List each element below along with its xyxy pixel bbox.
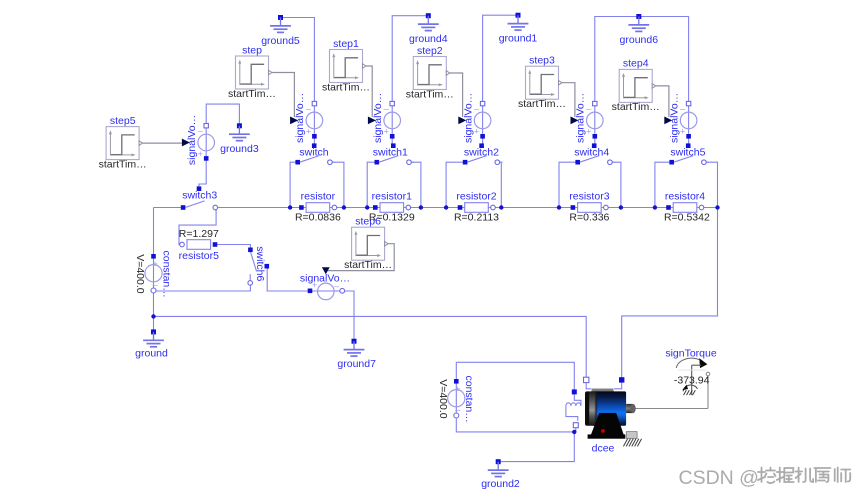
svg-text:signalVo…: signalVo…	[462, 93, 474, 143]
svg-text:resistor1: resistor1	[372, 191, 412, 203]
svg-text:+: +	[680, 127, 685, 137]
svg-text:signalVo…: signalVo…	[294, 93, 306, 143]
svg-text:R=0.2113: R=0.2113	[454, 211, 499, 223]
svg-text:–: –	[474, 103, 479, 113]
svg-text:resistor3: resistor3	[569, 191, 609, 203]
svg-text:switch5: switch5	[670, 147, 705, 159]
svg-text:+: +	[586, 127, 591, 137]
svg-text:R=0.0836: R=0.0836	[295, 211, 341, 223]
svg-text:–: –	[680, 103, 685, 113]
svg-text:startTim…: startTim…	[322, 81, 370, 93]
svg-text:step5: step5	[110, 115, 136, 127]
svg-text:resistor2: resistor2	[456, 191, 496, 203]
svg-text:signalVo…: signalVo…	[575, 93, 587, 143]
svg-text:constan…: constan…	[160, 251, 172, 298]
svg-text:signTorque: signTorque	[665, 347, 717, 359]
svg-text:+: +	[306, 127, 311, 137]
svg-text:startTim…: startTim…	[612, 101, 660, 113]
svg-text:signalVo…: signalVo…	[300, 273, 350, 285]
svg-text:ground4: ground4	[409, 33, 448, 45]
svg-text:step: step	[242, 44, 262, 56]
svg-text:R=0.1329: R=0.1329	[369, 211, 415, 223]
svg-text:resistor: resistor	[301, 191, 336, 203]
svg-text:V=400.0: V=400.0	[134, 254, 146, 294]
svg-text:–: –	[455, 405, 460, 415]
svg-text:startTim…: startTim…	[344, 259, 392, 271]
svg-text:+: +	[152, 259, 157, 269]
svg-text:–: –	[198, 126, 203, 136]
svg-text:ground1: ground1	[499, 33, 538, 45]
svg-text:step3: step3	[529, 55, 555, 67]
svg-text:–: –	[384, 103, 389, 113]
svg-text:switch6: switch6	[254, 246, 266, 281]
svg-text:R=0.5342: R=0.5342	[664, 211, 710, 223]
svg-text:+: +	[384, 127, 389, 137]
svg-text:–: –	[152, 280, 157, 290]
svg-text:ground2: ground2	[481, 478, 520, 490]
svg-text:startTim…: startTim…	[99, 158, 147, 170]
svg-text:+: +	[198, 149, 203, 159]
svg-text:startTim…: startTim…	[228, 88, 276, 100]
svg-text:R=1.297: R=1.297	[179, 228, 219, 240]
svg-text:signalVo…: signalVo…	[186, 115, 198, 165]
svg-text:+: +	[455, 384, 460, 394]
svg-text:ground3: ground3	[220, 143, 259, 155]
svg-text:switch3: switch3	[182, 189, 217, 201]
svg-text:switch4: switch4	[574, 147, 609, 159]
svg-text:ground5: ground5	[261, 35, 300, 47]
svg-text:startTim…: startTim…	[518, 98, 566, 110]
svg-text:–: –	[306, 103, 311, 113]
svg-text:ground7: ground7	[337, 358, 376, 370]
svg-text:switch: switch	[299, 147, 328, 159]
svg-text:switch2: switch2	[464, 147, 499, 159]
svg-text:R=0.336: R=0.336	[569, 211, 609, 223]
svg-text:CSDN @: CSDN @	[679, 467, 759, 489]
svg-text:step4: step4	[623, 58, 649, 70]
svg-text:V=400.0: V=400.0	[437, 379, 449, 419]
svg-text:step1: step1	[333, 38, 359, 50]
svg-text:ground: ground	[135, 348, 168, 360]
svg-text:signalVo…: signalVo…	[372, 93, 384, 143]
svg-text:switch1: switch1	[373, 147, 408, 159]
svg-text:dcee: dcee	[592, 443, 615, 455]
svg-text:+: +	[474, 127, 479, 137]
svg-text:–: –	[586, 103, 591, 113]
svg-text:ground6: ground6	[620, 34, 659, 46]
svg-text:constan…: constan…	[463, 376, 475, 423]
svg-text:resistor5: resistor5	[179, 250, 219, 262]
svg-text:step2: step2	[417, 45, 443, 57]
svg-text:resistor4: resistor4	[665, 191, 705, 203]
svg-text:startTim…: startTim…	[406, 88, 454, 100]
svg-text:signalVo…: signalVo…	[668, 93, 680, 143]
